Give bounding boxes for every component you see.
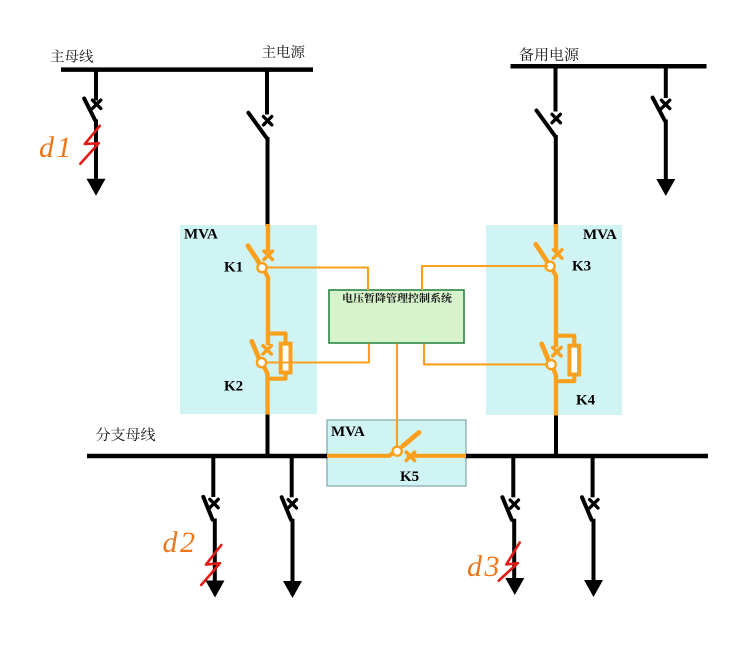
fault lightning d2 [201, 545, 221, 585]
svg-text:K1: K1 [224, 260, 243, 276]
wire K2 to busbar [264, 367, 268, 415]
K3 hinge circle [545, 262, 554, 271]
control system box label [343, 293, 452, 303]
feeder wire from main busbar (d1 branch) [94, 70, 98, 101]
MVA unit box bottom (K5) [327, 420, 466, 486]
breaker contact X branch 2 [288, 500, 296, 508]
feeder wire branch 2 [290, 456, 294, 497]
wire below breaker branch 2 [291, 519, 295, 582]
svg-text:MVA: MVA [184, 227, 218, 243]
K4 bypass wire top [556, 336, 574, 347]
K2 contact X [263, 346, 271, 354]
breaker blade branch 2 [282, 497, 291, 520]
load arrow right branch [656, 179, 675, 196]
K2 wire to control box [266, 344, 369, 363]
wire K3 to K4 [553, 270, 557, 337]
svg-text:d3: d3 [467, 550, 502, 583]
load arrow branch 4 [584, 580, 603, 597]
K2 feeder wire [266, 334, 270, 346]
K5 hinge circle [393, 447, 402, 456]
K5 busbar tie wire left segment [327, 453, 394, 456]
wire K1 to K2 [265, 271, 269, 335]
label branch busbar 分支母线 [96, 427, 155, 441]
branch busbar right segment [465, 454, 708, 459]
main busbar [61, 67, 313, 72]
branch busbar left segment [87, 454, 328, 459]
label backup source 备用电源 [520, 47, 579, 61]
fault lightning d1 [80, 126, 100, 164]
feeder wire d3 branch [511, 456, 515, 497]
feeder wire backup source [554, 66, 558, 111]
K4 feeder wire [554, 336, 558, 348]
svg-text:K4: K4 [576, 393, 596, 409]
wire K4 to busbar [554, 369, 557, 416]
K2 bypass resistor [281, 344, 291, 373]
svg-text:MVA: MVA [331, 424, 365, 440]
wire below breaker right branch [664, 120, 668, 183]
wire MVA right box to branch busbar [554, 414, 558, 458]
K4 hinge circle [547, 360, 556, 369]
K5 wire from control box [396, 344, 398, 449]
K5 contact X [406, 452, 414, 460]
K2 blade [252, 341, 259, 358]
wire main source to MVA box [266, 137, 270, 226]
breaker contact X d2 branch [210, 499, 218, 507]
breaker contact X branch 4 [590, 500, 598, 508]
breaker blade right branch [653, 98, 665, 121]
feeder wire branch 4 [591, 456, 595, 497]
K1 blade [248, 246, 260, 264]
K2 bypass wire top [268, 334, 286, 345]
K4 wire to control box [424, 344, 547, 365]
feeder wire main source [265, 70, 269, 115]
load arrow d2 branch [206, 581, 225, 598]
fault lightning d3 [499, 543, 520, 581]
svg-text:K5: K5 [400, 469, 419, 485]
wire below breaker branch 4 [592, 519, 596, 581]
K2 hinge circle [257, 358, 266, 367]
feeder wire right branch of backup bus [664, 66, 668, 98]
svg-text:K2: K2 [224, 379, 243, 395]
K1 hinge circle [257, 263, 266, 272]
K3 blade [536, 244, 548, 262]
load arrow (d1 branch) [87, 179, 106, 196]
K4 blade [542, 344, 549, 361]
svg-text:d2: d2 [163, 526, 198, 559]
breaker contact X right branch [661, 100, 669, 108]
wire below breaker d3 branch [512, 519, 516, 579]
K3 feeder wire [554, 224, 558, 251]
K1 wire to control box [266, 268, 368, 291]
K5 blade [403, 433, 419, 447]
K2 bypass wire bottom [268, 372, 286, 379]
K4 bypass wire bottom [556, 374, 574, 382]
load arrow branch 2 [283, 581, 302, 598]
control system box 电压暂降管理控制系统 [329, 290, 464, 343]
wire backup source to MVA box [554, 135, 558, 226]
wire below breaker (d1 branch) [94, 120, 98, 182]
breaker contact X main source [263, 117, 271, 125]
svg-text:d1: d1 [39, 131, 74, 164]
load arrow d3 branch [505, 578, 524, 595]
MVA unit box left [180, 225, 317, 414]
K4 bypass resistor [569, 346, 579, 375]
breaker blade backup source [537, 111, 556, 137]
K3 wire to control box [422, 266, 548, 290]
breaker contact X backup source [552, 114, 560, 122]
wire below breaker d2 branch [213, 519, 217, 583]
wire MVA left box to branch busbar [266, 413, 270, 458]
label main source 主电源 [262, 45, 304, 58]
MVA unit box right [486, 225, 622, 415]
breaker blade d2 branch [203, 497, 212, 520]
breaker blade d3 branch [502, 497, 511, 520]
K4 contact X [553, 348, 561, 356]
backup busbar [511, 64, 707, 69]
breaker blade (d1 branch) [84, 99, 95, 122]
breaker blade main source [248, 113, 267, 139]
K5 busbar tie wire right segment [407, 454, 467, 458]
svg-text:K3: K3 [572, 259, 591, 275]
K1 contact X [264, 251, 272, 259]
breaker contact X (d1 branch) [92, 100, 100, 108]
K1 feeder wire [266, 224, 270, 252]
breaker blade branch 4 [582, 497, 592, 520]
breaker contact X d3 branch [510, 500, 518, 508]
label main busbar 主母线 [51, 49, 94, 62]
K3 contact X [554, 250, 562, 258]
svg-text:MVA: MVA [583, 227, 617, 243]
feeder wire d2 branch [211, 456, 215, 497]
